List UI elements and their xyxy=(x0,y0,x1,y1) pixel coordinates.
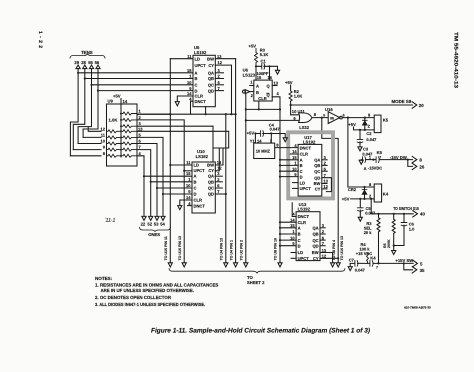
svg-text:LD: LD xyxy=(195,56,201,61)
svg-text:TO U8 PIN 16: TO U8 PIN 16 xyxy=(274,238,278,261)
U10 LD wire to V1 xyxy=(170,164,192,166)
svg-text:DNCT: DNCT xyxy=(195,99,207,104)
capacitor C5 xyxy=(359,199,361,217)
svg-text:LS192: LS192 xyxy=(196,154,209,159)
svg-text:A: A xyxy=(256,83,259,88)
svg-text:LS192: LS192 xyxy=(303,140,316,145)
ONES terminal arrow 54 xyxy=(161,216,165,220)
svg-text:13: 13 xyxy=(323,179,328,184)
U17 QB stub xyxy=(322,164,327,166)
svg-text:QC: QC xyxy=(208,186,214,191)
branch to off-page arrow 35 xyxy=(404,263,413,269)
capacitor C3 (series) xyxy=(363,157,366,163)
U17 QD wire loop xyxy=(322,178,332,192)
svg-text:A: A xyxy=(364,166,367,171)
arrow V226 xyxy=(224,263,228,267)
svg-text:1: 1 xyxy=(369,156,371,160)
U5 QA stub xyxy=(215,72,223,74)
ONES terminal arrow 52 xyxy=(149,216,153,220)
svg-text:A: A xyxy=(300,158,303,163)
U17 C wire to bus xyxy=(280,170,298,172)
Y1 pin 8 output to U17 DNCT xyxy=(276,143,279,148)
U5 CY wire down xyxy=(215,65,231,114)
U11 input 10 wire xyxy=(291,105,299,115)
U5 LD wire to V1 xyxy=(170,58,193,60)
wire from U16 output node down to K4 coil xyxy=(348,118,374,187)
U13 left pin numbers xyxy=(290,212,295,246)
svg-text:6: 6 xyxy=(217,183,220,188)
svg-text:BW: BW xyxy=(207,163,214,168)
svg-text:3: 3 xyxy=(322,223,325,228)
svg-text:8: 8 xyxy=(276,143,279,148)
svg-text:CLR: CLR xyxy=(258,96,266,101)
U17 CY stub xyxy=(322,188,327,190)
svg-text:13: 13 xyxy=(138,126,143,131)
svg-text:14: 14 xyxy=(292,149,297,154)
figure caption xyxy=(151,328,370,335)
svg-text:QB: QB xyxy=(314,163,320,168)
svg-text:QC: QC xyxy=(312,238,318,243)
U6 inside labels xyxy=(256,83,271,101)
resistor R2 1.0K xyxy=(289,85,292,105)
C2 ground arrow xyxy=(358,147,362,151)
U5 left pin numbers xyxy=(187,54,192,101)
U10 right pin names xyxy=(207,163,214,197)
svg-text:Figure 1-11. Sample-and-Hold: Figure 1-11. Sample-and-Hold Circuit Sch… xyxy=(151,328,370,335)
U5 left pin names xyxy=(195,56,207,104)
crystal oscillator Y1 10 MHZ xyxy=(254,143,275,158)
svg-text:QB: QB xyxy=(312,232,318,237)
+5V tap for K5 coil xyxy=(348,122,356,127)
ONES brace xyxy=(140,228,171,232)
svg-text:12: 12 xyxy=(101,126,106,131)
svg-text:8: 8 xyxy=(314,112,317,117)
MODE S8 line to sheet edge xyxy=(291,104,413,106)
svg-text:Y1: Y1 xyxy=(250,139,256,144)
svg-text:14: 14 xyxy=(257,139,262,144)
U17 right pin numbers xyxy=(323,155,328,189)
TO SWITCH S15 line xyxy=(371,213,413,215)
U10 QD wire to V226 xyxy=(215,193,226,195)
brace to sheet 2 xyxy=(169,269,345,273)
svg-text:QA: QA xyxy=(208,174,214,179)
svg-text:3: 3 xyxy=(324,155,327,160)
svg-text:1: 1 xyxy=(139,109,142,114)
vertical wire V226 to U4 pin 13 xyxy=(225,114,227,263)
svg-text:4: 4 xyxy=(277,91,280,96)
svg-text:TO U4 PIN 1: TO U4 PIN 1 xyxy=(229,240,233,261)
wire tens-D vertical xyxy=(83,69,98,138)
U6 Qbar pin 4 wire loop xyxy=(277,91,280,96)
svg-text:7: 7 xyxy=(218,86,221,91)
U13 right pin names xyxy=(312,226,319,262)
svg-text:B: B xyxy=(298,232,301,237)
svg-text:40: 40 xyxy=(420,212,425,217)
svg-text:10: 10 xyxy=(290,235,295,240)
svg-text:LS192: LS192 xyxy=(194,50,207,55)
svg-text:QA: QA xyxy=(314,158,320,163)
svg-text:3. ALL DIODES IN647-1 UNLESS: 3. ALL DIODES IN647-1 UNLESS SPECIFIED O… xyxy=(95,302,205,307)
destination label TO U8 PIN 16 xyxy=(274,238,278,261)
svg-text:2: 2 xyxy=(251,93,254,98)
destination label TO U8 PIN 4 xyxy=(332,240,336,261)
svg-text:0.047: 0.047 xyxy=(365,211,376,216)
svg-text:LS192: LS192 xyxy=(298,207,311,212)
svg-text:DNCT: DNCT xyxy=(300,145,312,150)
svg-text:52: 52 xyxy=(147,221,152,226)
svg-text:DNCT: DNCT xyxy=(194,204,206,209)
svg-text:35: 35 xyxy=(420,268,425,273)
svg-text:7: 7 xyxy=(322,241,325,246)
U13 C wire to bus xyxy=(280,239,296,241)
wire rectangle above U10 xyxy=(213,126,229,162)
svg-text:LD: LD xyxy=(298,250,304,255)
svg-text:6: 6 xyxy=(218,80,221,85)
svg-text:1.0K: 1.0K xyxy=(109,118,118,123)
svg-text:+5V: +5V xyxy=(342,197,350,202)
svg-text:1.0: 1.0 xyxy=(409,227,415,232)
svg-text:15: 15 xyxy=(186,171,191,176)
svg-text:ARE IN UF UNLESS SPECIFIED OTH: ARE IN UF UNLESS SPECIFIED OTHERWISE. xyxy=(101,288,195,293)
svg-text:15: 15 xyxy=(292,155,297,160)
svg-text:4: 4 xyxy=(292,212,295,217)
svg-text:20 k: 20 k xyxy=(364,230,373,235)
U17 CLR stub xyxy=(290,153,298,155)
svg-text:TO U8 PIN 4: TO U8 PIN 4 xyxy=(332,240,336,261)
svg-text:K5: K5 xyxy=(377,150,383,155)
U17 QC stub xyxy=(322,170,327,172)
resistor R4 100k labels xyxy=(356,242,372,256)
svg-text:20: 20 xyxy=(419,103,424,108)
svg-text:+5V: +5V xyxy=(285,80,293,85)
svg-text:CLR: CLR xyxy=(194,197,202,202)
svg-text:ONES: ONES xyxy=(148,232,160,237)
U5 CLR wire xyxy=(177,96,193,102)
ONES wire D junction xyxy=(163,193,192,195)
svg-text:+5V: +5V xyxy=(249,44,257,49)
diode CR2 across K4 coil xyxy=(348,187,357,192)
svg-text:+5V: +5V xyxy=(247,131,255,136)
wire tens-C vertical xyxy=(78,69,91,144)
svg-text:CY: CY xyxy=(315,187,321,192)
resistor network U9 xyxy=(107,104,138,166)
U10 right pin numbers xyxy=(217,160,223,194)
svg-text:C2: C2 xyxy=(366,131,372,136)
U10 QC stub xyxy=(215,187,222,189)
arrow V246 xyxy=(244,263,248,267)
svg-text:CLR: CLR xyxy=(195,94,203,99)
U10 left pin numbers xyxy=(186,160,191,206)
svg-text:2: 2 xyxy=(139,115,142,120)
svg-text:UPCT: UPCT xyxy=(298,256,310,261)
svg-text:D: D xyxy=(195,88,198,93)
svg-text:B: B xyxy=(300,163,303,168)
resistor R5 200K xyxy=(393,213,395,215)
U10 CY wire up xyxy=(215,148,219,171)
arrow V2 xyxy=(182,263,186,267)
U9 pin4 wire to ONES col1 xyxy=(137,156,144,216)
ONES wire A junction xyxy=(144,175,192,177)
svg-text:B: B xyxy=(195,76,198,81)
svg-text:29: 29 xyxy=(74,60,79,65)
U5 bottom pin 5 wire xyxy=(205,107,207,115)
wire tens-C to U5 pin C xyxy=(92,84,194,86)
arrow V236 xyxy=(234,263,238,267)
svg-text:1-22: 1-22 xyxy=(37,31,43,48)
svg-text:LS123: LS123 xyxy=(243,72,256,77)
capacitor C6 1.0 xyxy=(403,213,405,215)
U10 DNCT stub xyxy=(188,205,193,207)
svg-text:6: 6 xyxy=(322,235,325,240)
svg-text:QD: QD xyxy=(208,88,214,93)
svg-text:5: 5 xyxy=(323,113,325,117)
svg-text:54: 54 xyxy=(160,221,165,226)
counter U10 LS192 xyxy=(192,162,215,213)
svg-text:4: 4 xyxy=(294,143,297,148)
svg-text:8: 8 xyxy=(419,157,422,162)
one-shot U6 LS123 xyxy=(254,80,272,101)
U9 left pin numbers xyxy=(101,126,106,156)
U17 LD stub xyxy=(293,182,299,184)
svg-text:9: 9 xyxy=(294,172,297,177)
svg-text:QB: QB xyxy=(208,179,214,184)
U17 left pin numbers xyxy=(292,143,297,177)
svg-text:0.047: 0.047 xyxy=(362,151,373,156)
svg-text:Q: Q xyxy=(267,83,271,88)
svg-text:DNCT: DNCT xyxy=(298,214,310,219)
+5V for Y1 xyxy=(247,131,255,136)
svg-text:4: 4 xyxy=(189,96,192,101)
svg-text:6: 6 xyxy=(324,166,327,171)
C1 ground arrow xyxy=(275,70,279,74)
wire tens-B vertical xyxy=(73,69,85,150)
drawing number xyxy=(404,306,431,310)
Y1 pin 7 wire from C4 line xyxy=(270,134,272,144)
U10 BW wire up xyxy=(215,148,223,165)
manual number TM 55-4920-410-13 (right margin, rotated) xyxy=(453,32,459,88)
svg-text:2: 2 xyxy=(324,161,327,166)
U9 resistor row 1 (pin 1) xyxy=(121,112,137,115)
svg-text:9: 9 xyxy=(189,86,192,91)
arrow U13 CY xyxy=(336,263,340,267)
svg-text:CY: CY xyxy=(208,63,214,68)
U13 left pin names xyxy=(298,214,310,261)
svg-text:0.047: 0.047 xyxy=(366,137,377,142)
U13 UPCT stub xyxy=(291,257,296,259)
svg-text:55: 55 xyxy=(88,60,93,65)
svg-text:11: 11 xyxy=(101,132,106,137)
K4 coil pin to switch line xyxy=(370,199,372,214)
U9 right pin numbers xyxy=(138,109,143,156)
svg-text:10: 10 xyxy=(186,183,191,188)
U5 CLR open arrow xyxy=(175,102,179,106)
svg-text:+5V: +5V xyxy=(348,122,356,127)
terminal arrow 56 xyxy=(96,65,100,69)
wire to U9 pin 12 xyxy=(88,127,101,132)
U17 right pin names xyxy=(314,158,321,192)
svg-text:BW: BW xyxy=(207,56,214,61)
U13 QC stub xyxy=(320,239,325,241)
svg-text:-15V DW: -15V DW xyxy=(390,155,407,160)
svg-text:8: 8 xyxy=(103,151,106,156)
gray highlight border around U17 xyxy=(288,132,333,198)
U13 D wire to bus xyxy=(280,245,296,247)
svg-text:0.047: 0.047 xyxy=(270,127,281,132)
ONES terminal arrow 53 xyxy=(155,216,159,220)
svg-text:QA: QA xyxy=(208,71,214,76)
counter U5 LS192 xyxy=(193,55,215,106)
svg-text:1. RESISTANCES ARE IN OHMS AN: 1. RESISTANCES ARE IN OHMS AND ALL CAPAC… xyxy=(95,283,218,288)
svg-text:9: 9 xyxy=(188,189,191,194)
terminal arrow 55 xyxy=(89,65,93,69)
svg-text:K5: K5 xyxy=(383,117,389,122)
svg-text:QD: QD xyxy=(312,243,318,248)
U9 pin5 wire to ONES col4 xyxy=(137,137,163,216)
U6 pin 15 xyxy=(255,66,257,80)
U13 CY wire to V340 xyxy=(320,257,338,259)
svg-text:BW: BW xyxy=(314,181,321,186)
svg-text:3: 3 xyxy=(217,171,220,176)
svg-text:+5V: +5V xyxy=(113,94,121,99)
svg-text:U9: U9 xyxy=(108,99,114,104)
svg-text:A: A xyxy=(298,226,301,231)
svg-text:A: A xyxy=(195,71,198,76)
destination label TO U2 PIN 2 xyxy=(240,240,244,261)
svg-text:D: D xyxy=(194,192,197,197)
wire tens-D to U9 pin 11 xyxy=(83,136,101,138)
U10 CLR wire xyxy=(180,200,192,206)
svg-text:3: 3 xyxy=(218,68,221,73)
svg-text:LD: LD xyxy=(300,180,306,185)
svg-text:1: 1 xyxy=(188,177,191,182)
ONES terminal arrow 22 xyxy=(142,216,146,220)
capacitor C2 xyxy=(359,130,361,147)
svg-text:5: 5 xyxy=(139,132,142,137)
resistor R3 SEL 20k xyxy=(377,213,379,215)
svg-text:LD: LD xyxy=(194,163,200,168)
svg-text:+15V SW: +15V SW xyxy=(395,258,413,263)
svg-text:9: 9 xyxy=(103,145,106,150)
+5V for R3 xyxy=(249,44,257,49)
svg-text:2: 2 xyxy=(322,229,325,234)
svg-text:QD: QD xyxy=(208,192,214,197)
svg-text:7: 7 xyxy=(376,266,378,270)
relay K4 coil box xyxy=(374,184,381,202)
svg-text:28: 28 xyxy=(81,60,86,65)
svg-text:D: D xyxy=(300,174,303,179)
svg-text:8: 8 xyxy=(368,113,371,118)
svg-text:U16: U16 xyxy=(325,107,333,112)
svg-text:UPCT: UPCT xyxy=(195,63,207,68)
svg-text:2: 2 xyxy=(368,123,371,128)
wire tens-A to U5 pin A xyxy=(78,72,193,74)
C5 ground arrow xyxy=(358,217,362,221)
ONES terminal numbers xyxy=(141,221,166,226)
svg-text:6: 6 xyxy=(343,113,345,117)
svg-text:15: 15 xyxy=(257,75,262,80)
page number 1-22 (left margin, rotated) xyxy=(37,31,43,48)
U9 pin7 wire to ONES col2 xyxy=(137,150,151,216)
terminal arrow 28 xyxy=(83,65,87,69)
U6 pin 2 trigger wedge xyxy=(251,93,254,98)
U9 pin1 wire joins bus xyxy=(137,113,170,115)
U17 BW stub xyxy=(322,183,327,185)
U6 CLR pin 3 drop xyxy=(258,101,260,109)
svg-text:8: 8 xyxy=(369,182,372,187)
destination label TO U16 PIN 13 xyxy=(340,236,344,261)
svg-text:9: 9 xyxy=(292,241,295,246)
off-page arrow 5 xyxy=(413,260,418,266)
U13 QD stub xyxy=(320,245,325,247)
svg-text:UPCT: UPCT xyxy=(194,168,206,173)
U9 resistor row 3 (pin 3) xyxy=(121,125,137,128)
svg-text:4: 4 xyxy=(188,201,191,206)
svg-text:TO U16 PIN 13: TO U16 PIN 13 xyxy=(340,236,344,261)
svg-text:26: 26 xyxy=(419,165,424,170)
relay K5 contact xyxy=(377,150,383,155)
vertical wire V236 to U4 pin 1 xyxy=(235,59,237,263)
svg-text:14: 14 xyxy=(123,99,128,104)
ONES wire B junction xyxy=(151,181,192,183)
svg-text:TO U15 PIN 13: TO U15 PIN 13 xyxy=(178,236,182,261)
vertical bus wire V280 to U8 pin 16 xyxy=(279,109,281,262)
svg-text:7: 7 xyxy=(139,145,142,150)
destination label TO U4 PIN 1 xyxy=(229,240,233,261)
K5 coil lower wire with +5V xyxy=(354,127,375,130)
svg-text:CLR: CLR xyxy=(298,220,306,225)
svg-text:LS32: LS32 xyxy=(299,125,310,130)
U10 QA stub xyxy=(215,175,222,177)
svg-text:14: 14 xyxy=(186,195,191,200)
counter U17 LS192 (highlighted) xyxy=(298,144,322,196)
arrow U13 BW xyxy=(331,263,335,267)
inverter U16 xyxy=(325,107,333,112)
U13 BW wire down xyxy=(320,253,333,263)
U5 QD stub xyxy=(215,90,223,92)
svg-text:QD: QD xyxy=(314,175,320,180)
U17 D wire to bus xyxy=(280,176,298,178)
brace over TENS terminals xyxy=(70,54,105,58)
svg-text:6: 6 xyxy=(139,139,142,144)
relay K4 contact xyxy=(370,255,376,260)
svg-text:16: 16 xyxy=(268,75,273,80)
destination label TO U4 PIN 13 xyxy=(220,238,224,261)
vertical wire V1 to U15 pin 11 xyxy=(169,59,171,263)
vertical wire V246 to U2 pin 2 xyxy=(245,109,247,262)
svg-text:QB: QB xyxy=(208,76,214,81)
svg-text:D: D xyxy=(298,243,301,248)
off-page arrow 40 xyxy=(413,211,418,217)
svg-text:R5: R5 xyxy=(383,243,387,248)
U6 Q pin 13 stub xyxy=(274,80,279,85)
svg-text:4: 4 xyxy=(139,151,142,156)
notes block xyxy=(95,276,218,307)
svg-text:CY: CY xyxy=(313,256,319,261)
U11 input 9 wire xyxy=(246,119,299,121)
svg-text:1: 1 xyxy=(292,229,295,234)
U13 QB stub xyxy=(320,233,325,235)
svg-text:7: 7 xyxy=(217,189,220,194)
U10 left pin names xyxy=(194,163,206,209)
TENS input group label xyxy=(81,50,93,55)
resistor R3 5.1K xyxy=(255,49,258,67)
svg-text:A: A xyxy=(194,174,197,179)
svg-text:B: B xyxy=(194,179,197,184)
svg-text:13: 13 xyxy=(274,80,279,85)
U9 resistor row 2 (pin 2) xyxy=(121,118,137,121)
svg-text:200K: 200K xyxy=(387,239,391,248)
U17 B wire to bus xyxy=(280,164,298,166)
